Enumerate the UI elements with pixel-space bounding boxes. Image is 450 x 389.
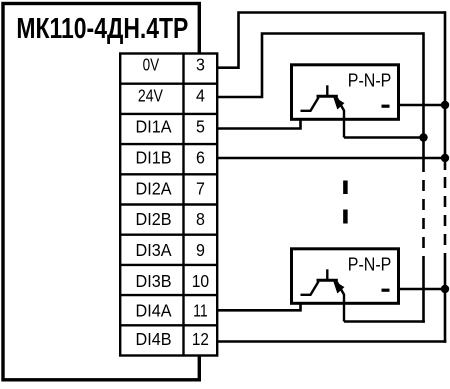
svg-text:6: 6 [196,148,205,168]
svg-text:12: 12 [192,330,209,349]
Q2 base bar [317,279,338,282]
wire sensor2 emitter to 24V bus end [344,320,425,323]
24V bus vertical dashed segment [422,180,425,258]
svg-text:DI4A: DI4A [136,301,173,321]
wire terminal 11 DI4A to sensor2 collector [216,295,301,310]
svg-text:4: 4 [196,86,205,106]
junction dot sensor2 minus / 0V bus [441,285,449,293]
sensor 2 box [292,249,399,303]
Q2 emitter arrow [334,281,344,292]
24V bus vertical solid lower segment [422,258,425,323]
Q2 base stub [326,269,328,280]
Q2 emitter lead [337,282,345,322]
wire terminal 12 DI4B to 0V bus (bottom) [216,340,446,343]
svg-text:9: 9 [196,240,205,260]
device outline МК110 [3,4,199,380]
terminal labels column [136,56,173,349]
Q1 emitter lead [337,98,345,138]
sensor 1 box [292,65,399,120]
svg-text:24V: 24V [138,87,163,106]
junction dot sensor1 minus / 0V bus [441,101,449,109]
svg-text:5: 5 [196,117,205,137]
svg-text:МК110-4ДН.4ТР: МК110-4ДН.4ТР [16,12,188,45]
svg-text:11: 11 [193,302,208,321]
svg-text:DI2B: DI2B [136,210,172,230]
0V bus vertical dashed segment [444,177,447,258]
wire sensor1 emitter to 24V bus [344,136,424,139]
Q1 base bar [317,95,338,98]
wire terminal 3 to 0V bus (top) [216,13,445,68]
svg-text:DI1B: DI1B [136,148,172,168]
junction dot sensor1 emitter / 24V bus [419,133,427,141]
0V bus vertical solid lower segment [444,258,447,343]
transistor Q2 (PNP) [301,269,345,321]
svg-text:DI4B: DI4B [136,330,172,350]
svg-text:7: 7 [196,179,205,199]
svg-text:0V: 0V [143,56,160,75]
sensor 2 minus terminal label [382,289,390,292]
svg-text:P-N-P: P-N-P [348,70,392,91]
sensor 1 minus terminal label [382,105,390,108]
0V bus vertical solid upper segment [444,11,447,170]
svg-text:DI2A: DI2A [136,179,173,199]
Q2 collector lead [301,282,319,295]
sensor 2 minus wire to 0V bus [399,288,446,291]
Q1 emitter arrow [334,97,344,108]
svg-text:10: 10 [192,271,209,291]
wire terminal 4 to 24V bus (top) [216,34,424,98]
24V bus vertical solid upper segment [422,32,425,172]
sensor 1 minus wire to 0V bus [399,104,446,107]
terminal block row dividers [120,84,217,326]
svg-text:DI1A: DI1A [136,117,173,137]
wire terminal 6 DI1B to 0V bus [216,157,445,160]
terminal numbers column [192,55,209,349]
junction dot DI1B wire / 0V bus [441,154,449,162]
wire terminal 5 DI1A to sensor1 collector [216,111,301,129]
continuation dashes between sensor groups [343,181,348,224]
transistor Q1 (PNP) [301,85,345,137]
terminal block column divider [182,54,184,356]
svg-text:8: 8 [196,210,205,230]
svg-text:DI3B: DI3B [136,271,172,291]
Q1 base stub [326,85,328,96]
svg-text:DI3A: DI3A [136,240,173,260]
terminal block table [120,54,217,356]
Q1 collector lead [301,98,319,111]
svg-text:P-N-P: P-N-P [348,254,392,275]
svg-text:3: 3 [196,55,205,75]
